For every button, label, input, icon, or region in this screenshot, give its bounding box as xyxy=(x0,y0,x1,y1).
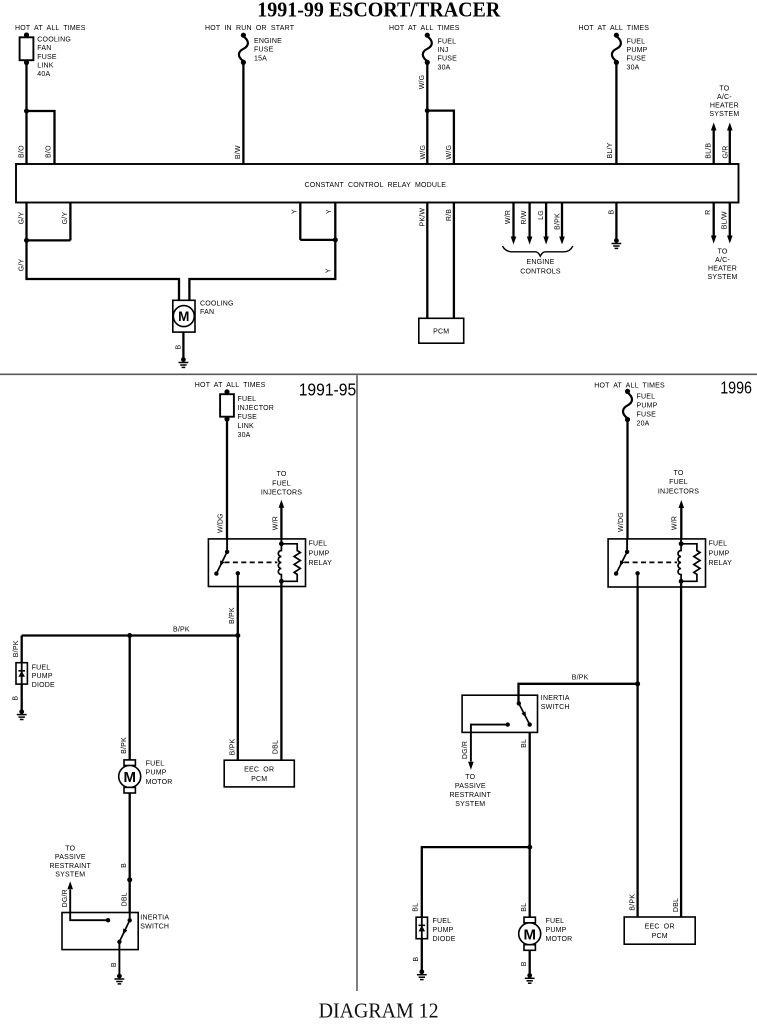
wire stub relay coil to box top xyxy=(280,539,282,544)
fuse F4: fuel pump fuse 20A (1996) xyxy=(623,389,632,422)
wire branch to second B/O feed xyxy=(27,111,55,164)
svg-text:1991-99 ESCORT/TRACER: 1991-99 ESCORT/TRACER xyxy=(257,0,501,22)
svg-text:B/PK: B/PK xyxy=(13,640,20,657)
svg-text:ENGINE: ENGINE xyxy=(526,259,554,266)
svg-text:LG: LG xyxy=(538,210,545,220)
svg-text:INJECTORS: INJECTORS xyxy=(261,490,302,497)
relay coil xyxy=(278,541,284,583)
svg-text:SYSTEM: SYSTEM xyxy=(708,274,738,281)
svg-text:PUMP: PUMP xyxy=(546,927,567,934)
svg-text:B: B xyxy=(111,962,118,967)
dashed actuation link in relay (1996) xyxy=(624,561,677,563)
svg-text:W/R: W/R xyxy=(672,516,679,530)
svg-text:FAN: FAN xyxy=(200,309,214,316)
svg-text:TO: TO xyxy=(65,845,75,852)
junction B/PK at motor drop xyxy=(127,633,132,638)
junction BL at diode branch (1996) xyxy=(527,845,532,850)
relay shunt resistor (1996) xyxy=(681,544,700,582)
svg-text:RESTRAINT: RESTRAINT xyxy=(50,863,92,870)
wire B/PK arrow to engine controls xyxy=(559,203,565,245)
svg-text:30A: 30A xyxy=(627,64,640,71)
svg-text:DIODE: DIODE xyxy=(32,682,55,689)
svg-text:DIODE: DIODE xyxy=(433,936,456,943)
svg-text:FAN: FAN xyxy=(37,45,51,52)
module EEC/PCM box (1991-95) xyxy=(224,760,294,787)
junction B/PK at relay drop xyxy=(235,633,240,638)
svg-text:DG/R: DG/R xyxy=(462,741,469,759)
svg-text:HOT AT ALL TIMES: HOT AT ALL TIMES xyxy=(579,25,650,32)
wire PK/W from CCRM to PCM xyxy=(426,203,428,319)
wire G/Y (left) from CCRM xyxy=(25,203,27,241)
motor M2: fuel pump motor (1991-95) xyxy=(119,760,141,793)
wire merge of G/Y pair xyxy=(27,239,71,241)
svg-text:TO: TO xyxy=(719,86,729,93)
wire LG arrow to engine controls xyxy=(543,203,549,245)
wire B from inertia switch to ground xyxy=(118,942,120,976)
switch blade in relay xyxy=(214,550,229,576)
svg-text:DBL: DBL xyxy=(673,898,680,912)
svg-text:LINK: LINK xyxy=(238,423,254,430)
svg-text:PCM: PCM xyxy=(433,329,449,336)
junction on W/G wire xyxy=(425,108,430,113)
svg-text:B/PK: B/PK xyxy=(229,739,236,756)
svg-text:PUMP: PUMP xyxy=(637,403,658,410)
svg-text:A/C-: A/C- xyxy=(717,94,732,101)
wire W/DG from fuse to fuel pump relay (1996) xyxy=(626,420,628,539)
svg-text:B/PK: B/PK xyxy=(173,626,190,633)
inertia switch aux contact (1996) xyxy=(506,722,510,726)
wire stub from relay contact (1996) xyxy=(637,573,639,587)
svg-text:M: M xyxy=(523,927,536,944)
relay K1: fuel pump relay box (1991-95) xyxy=(208,539,305,587)
ground (CCRM) xyxy=(612,238,622,248)
wire W/G from fuse to CCRM xyxy=(426,62,428,164)
svg-text:PUMP: PUMP xyxy=(146,770,167,777)
svg-text:15A: 15A xyxy=(254,55,267,62)
svg-text:W/DG: W/DG xyxy=(217,513,224,533)
wire G/Y down to cooling fan run xyxy=(27,240,180,301)
svg-text:B/PK: B/PK xyxy=(629,894,636,911)
svg-text:BL/Y: BL/Y xyxy=(607,142,614,158)
relay switch output contact xyxy=(236,571,240,575)
diode D1: fuel pump diode (1991-95) xyxy=(16,663,27,684)
wire G/R with up arrow to A/C-heater system xyxy=(727,123,733,165)
svg-text:B: B xyxy=(413,957,420,962)
svg-text:HEATER: HEATER xyxy=(710,103,739,110)
wire Y (outer) from CCRM xyxy=(334,203,336,240)
svg-text:MOTOR: MOTOR xyxy=(146,779,173,786)
svg-text:FUSE: FUSE xyxy=(37,54,57,61)
svg-text:M: M xyxy=(123,769,136,786)
svg-text:DBL: DBL xyxy=(272,740,279,754)
svg-text:FUSE: FUSE xyxy=(637,412,657,419)
svg-text:B/PK: B/PK xyxy=(554,213,561,230)
ground (cooling fan) xyxy=(179,357,189,367)
svg-text:PUMP: PUMP xyxy=(627,47,648,54)
svg-text:BL: BL xyxy=(521,903,528,912)
svg-text:TO: TO xyxy=(277,471,287,478)
svg-text:Y: Y xyxy=(326,209,333,214)
ground (fuel pump motor 1996) xyxy=(525,973,535,983)
motor M1: cooling fan motor xyxy=(173,300,195,332)
svg-text:SWITCH: SWITCH xyxy=(541,704,570,711)
svg-text:PUMP: PUMP xyxy=(433,927,454,934)
module U1: constant control relay module box xyxy=(16,164,739,203)
svg-text:FUSE: FUSE xyxy=(438,56,458,63)
svg-text:PUMP: PUMP xyxy=(32,673,53,680)
wire W/DG from fuse link to fuel pump relay xyxy=(226,419,228,539)
section divider (horizontal) xyxy=(0,373,757,375)
svg-text:W/R: W/R xyxy=(505,210,512,224)
switch S1: inertia switch box (1991-95) xyxy=(62,913,138,950)
wire B from CCRM to ground xyxy=(615,203,617,241)
wire B from motor to ground (1996) xyxy=(529,950,531,975)
wire B from motor to inertia switch xyxy=(129,793,131,912)
relay coil (1996) xyxy=(678,541,683,583)
svg-text:PASSIVE: PASSIVE xyxy=(55,854,86,861)
inertia switch blade xyxy=(117,918,132,944)
svg-text:B: B xyxy=(521,961,528,966)
svg-text:DG/R: DG/R xyxy=(62,889,69,907)
wire B/PK from relay to splice xyxy=(237,587,239,636)
svg-text:SYSTEM: SYSTEM xyxy=(455,801,485,808)
svg-text:B/W: B/W xyxy=(235,145,242,159)
svg-text:B/PK: B/PK xyxy=(121,737,128,754)
svg-text:PUMP: PUMP xyxy=(709,550,730,557)
motor M3: fuel pump motor (1996) xyxy=(519,917,541,950)
svg-text:20A: 20A xyxy=(637,421,650,428)
svg-text:HOT IN RUN OR START: HOT IN RUN OR START xyxy=(205,25,295,32)
svg-text:G/Y: G/Y xyxy=(62,212,69,225)
relay K2: fuel pump relay box (1996) xyxy=(608,539,705,587)
fuse link FL1: cooling fan fuse link 40A xyxy=(20,32,34,65)
inertia switch blade (1996) xyxy=(517,701,532,727)
wire B/PK horizontal run xyxy=(22,634,238,636)
wire B/PK horizontal to inertia switch (1996) xyxy=(519,684,638,704)
svg-text:M: M xyxy=(178,309,189,324)
svg-text:PK/W: PK/W xyxy=(420,208,427,227)
svg-text:B/O: B/O xyxy=(45,145,52,158)
svg-text:FUEL: FUEL xyxy=(637,394,656,401)
wire BL horizontal to diode (1996) xyxy=(422,847,530,917)
svg-text:EEC OR: EEC OR xyxy=(645,924,675,931)
svg-text:TO: TO xyxy=(465,774,475,781)
svg-text:B: B xyxy=(121,863,128,868)
svg-text:A/C-: A/C- xyxy=(715,257,730,264)
svg-text:DIAGRAM 12: DIAGRAM 12 xyxy=(319,999,439,1023)
svg-text:INERTIA: INERTIA xyxy=(541,695,570,702)
wire B/PK from relay down to EEC (1996) xyxy=(636,587,638,917)
svg-text:COOLING: COOLING xyxy=(37,37,71,44)
svg-text:W/DG: W/DG xyxy=(618,512,625,532)
wire DG/R inside inertia switch xyxy=(70,890,108,921)
ground (inertia switch 1991-95) xyxy=(115,974,125,984)
svg-text:30A: 30A xyxy=(438,64,451,71)
module EEC/PCM box (1996) xyxy=(624,917,695,944)
wire R/B from CCRM to PCM xyxy=(453,203,455,319)
svg-text:FUEL: FUEL xyxy=(32,664,51,671)
wire BL/Y from fuse to CCRM xyxy=(615,62,617,164)
svg-text:SYSTEM: SYSTEM xyxy=(55,872,85,879)
svg-text:FUEL: FUEL xyxy=(272,480,291,487)
wire B/PK from splice to EEC xyxy=(237,636,239,761)
junction of G/Y wires xyxy=(24,238,29,243)
svg-text:HOT AT ALL TIMES: HOT AT ALL TIMES xyxy=(594,382,665,389)
svg-text:1996: 1996 xyxy=(720,377,752,397)
svg-text:DBL: DBL xyxy=(121,892,128,906)
svg-text:ENGINE: ENGINE xyxy=(254,38,282,45)
svg-text:TO: TO xyxy=(718,249,728,256)
svg-text:40A: 40A xyxy=(37,71,50,78)
svg-text:W/G: W/G xyxy=(446,145,453,160)
svg-text:FUEL: FUEL xyxy=(238,396,257,403)
junction of Y wires xyxy=(333,237,338,242)
svg-text:FUSE: FUSE xyxy=(627,56,647,63)
wire DG/R inside inertia switch (1996) xyxy=(471,725,508,762)
svg-text:LINK: LINK xyxy=(37,62,53,69)
svg-text:PUMP: PUMP xyxy=(309,550,330,557)
fuse link FL2: fuel injector fuse link 30A xyxy=(220,389,234,421)
diode D2: fuel pump diode (1996) xyxy=(416,917,427,939)
svg-text:COOLING: COOLING xyxy=(200,300,234,307)
svg-text:HOT AT ALL TIMES: HOT AT ALL TIMES xyxy=(389,25,460,32)
relay switch output contact (1996) xyxy=(635,571,639,575)
svg-text:PCM: PCM xyxy=(251,776,267,783)
fuse F1: engine fuse 15A xyxy=(239,33,248,65)
svg-text:FUSE: FUSE xyxy=(238,414,258,421)
svg-text:B/PK: B/PK xyxy=(572,675,589,682)
wire stub relay coil to box top (1996) xyxy=(680,539,682,544)
svg-text:FUEL: FUEL xyxy=(709,541,728,548)
junction on B/O wire xyxy=(24,109,29,114)
svg-text:INERTIA: INERTIA xyxy=(140,915,169,922)
inertia switch aux contact xyxy=(106,918,110,922)
junction B/PK at inertia feed (1996) xyxy=(635,681,640,686)
svg-text:30A: 30A xyxy=(238,432,251,439)
svg-text:FUEL: FUEL xyxy=(546,918,565,925)
ground (fuel pump diode 1996) xyxy=(417,969,427,979)
svg-text:R/W: R/W xyxy=(521,210,528,224)
fuse F3: fuel pump fuse 30A xyxy=(612,33,621,65)
svg-text:FUEL: FUEL xyxy=(146,761,165,768)
svg-text:G/R: G/R xyxy=(722,145,729,158)
svg-text:B: B xyxy=(13,696,20,701)
svg-text:R/B: R/B xyxy=(446,209,453,221)
svg-text:PASSIVE: PASSIVE xyxy=(455,783,486,790)
wire BL/W arrow to A/C-heater system xyxy=(727,203,733,244)
svg-text:B/O: B/O xyxy=(18,145,25,158)
svg-text:BL: BL xyxy=(412,903,419,912)
wire stub from relay contact xyxy=(237,573,239,586)
svg-text:SWITCH: SWITCH xyxy=(140,923,169,930)
wire DBL from relay coil to EEC (1996) xyxy=(680,581,682,917)
module PCM box xyxy=(419,318,464,343)
svg-text:R: R xyxy=(705,210,712,215)
svg-text:INJ: INJ xyxy=(438,47,449,54)
wire BL/B with up arrow to A/C-heater system xyxy=(711,123,717,165)
wire merge of Y pair xyxy=(300,239,335,241)
wire B/O from fuse link to CCRM xyxy=(25,63,27,165)
svg-text:RELAY: RELAY xyxy=(709,560,733,567)
svg-text:MOTOR: MOTOR xyxy=(546,936,573,943)
svg-text:G/Y: G/Y xyxy=(18,258,25,271)
wire G/Y (second) from CCRM xyxy=(69,203,71,241)
svg-text:CONSTANT CONTROL RELAY MODULE: CONSTANT CONTROL RELAY MODULE xyxy=(304,182,446,189)
wire B/PK down to fuel pump diode xyxy=(21,636,23,663)
svg-text:BL/B: BL/B xyxy=(706,143,713,159)
splice junction on motor ground wire xyxy=(127,877,132,882)
wire DG/R down arrow to passive restraint (1996) xyxy=(468,762,474,770)
svg-text:1991-95: 1991-95 xyxy=(299,380,357,400)
wire BL from inertia switch to fuel pump motor (1996) xyxy=(529,732,531,917)
ground (fuel pump diode 1991-95) xyxy=(17,709,27,719)
svg-text:SYSTEM: SYSTEM xyxy=(709,111,739,118)
wire branch W/G xyxy=(427,111,454,164)
svg-text:FUEL: FUEL xyxy=(309,541,328,548)
switch S2: inertia switch box (1996) xyxy=(462,695,537,732)
svg-text:RELAY: RELAY xyxy=(309,560,333,567)
relay shunt resistor xyxy=(281,544,300,582)
svg-text:TO: TO xyxy=(674,470,684,477)
svg-text:W/G: W/G xyxy=(419,75,426,90)
wire Y down to cooling fan run xyxy=(189,240,335,301)
wire stub into inertia switch xyxy=(129,913,131,921)
svg-text:B: B xyxy=(609,209,616,214)
wire R arrow to A/C-heater system xyxy=(711,203,717,244)
svg-text:INJECTORS: INJECTORS xyxy=(658,488,699,495)
wire R/W arrow to engine controls xyxy=(527,203,533,245)
svg-text:Y: Y xyxy=(291,209,298,214)
svg-text:PCM: PCM xyxy=(652,933,668,940)
wire stub into relay switch xyxy=(226,539,228,552)
wire B/PK from splice to fuel pump motor xyxy=(129,636,131,760)
wire B/W from engine fuse to CCRM xyxy=(242,62,244,164)
svg-text:FUSE: FUSE xyxy=(254,47,274,54)
wire DG/R up arrow to passive restraint xyxy=(67,881,73,889)
svg-text:INJECTOR: INJECTOR xyxy=(238,405,274,412)
svg-text:G/Y: G/Y xyxy=(18,212,25,225)
svg-text:B/PK: B/PK xyxy=(229,607,236,624)
svg-text:HOT AT ALL TIMES: HOT AT ALL TIMES xyxy=(195,382,266,389)
svg-text:FUEL: FUEL xyxy=(669,479,688,486)
svg-text:W/R: W/R xyxy=(273,516,280,530)
svg-text:FUEL: FUEL xyxy=(433,918,452,925)
svg-text:HOT AT ALL TIMES: HOT AT ALL TIMES xyxy=(15,25,86,32)
wire B from cooling fan to ground xyxy=(182,332,184,360)
svg-text:HEATER: HEATER xyxy=(708,266,737,273)
svg-text:Y: Y xyxy=(325,268,332,273)
wire Y (inner) from CCRM xyxy=(299,203,301,240)
svg-text:W/G: W/G xyxy=(420,145,427,160)
wire B from diode to ground (1996) xyxy=(421,939,423,972)
wire W/R arrow to engine controls xyxy=(511,203,517,245)
fuse F2: fuel inj fuse 30A xyxy=(423,33,432,65)
wire W/R with up arrow to fuel injectors (1996) xyxy=(679,500,685,539)
svg-text:FUEL: FUEL xyxy=(627,38,646,45)
svg-text:BL/W: BL/W xyxy=(722,211,729,229)
brace for engine controls group xyxy=(503,246,573,256)
wire B from diode to ground xyxy=(21,684,23,712)
wire DBL from relay coil to EEC xyxy=(280,581,282,760)
wire stub into relay switch (1996) xyxy=(626,539,628,552)
svg-text:RESTRAINT: RESTRAINT xyxy=(450,792,492,799)
dashed actuation link in relay xyxy=(225,561,278,563)
svg-text:BL: BL xyxy=(521,739,528,748)
switch blade in relay (1996) xyxy=(614,550,629,576)
svg-text:FUEL: FUEL xyxy=(438,38,457,45)
svg-text:CONTROLS: CONTROLS xyxy=(520,268,561,275)
wire W/R with up arrow to fuel injectors xyxy=(279,500,285,539)
svg-text:B: B xyxy=(176,345,183,350)
section divider (vertical) xyxy=(356,375,358,991)
svg-text:EEC OR: EEC OR xyxy=(244,767,274,774)
